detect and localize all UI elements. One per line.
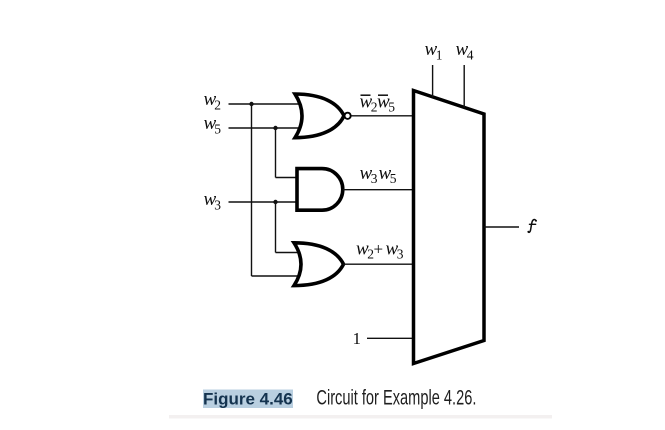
wire NOR output to mux input 00 [351,115,413,117]
wire f output [484,226,519,228]
label w5 [204,113,222,137]
junction dot on w2 [249,102,253,106]
OR gate U3 [294,243,344,286]
svg-text:Figure 4.46: Figure 4.46 [203,390,293,409]
svg-text:1: 1 [353,329,362,348]
svg-text:3: 3 [397,247,404,262]
svg-text:5: 5 [388,100,395,115]
label w2 + w3 [356,239,404,262]
wire w3 horizontal to AND input B [229,201,300,203]
label w2 [204,89,221,113]
label w3 w5 [360,163,397,186]
wire w3 branch vertical [275,202,277,253]
wire w2 horizontal to NOR input A [229,103,303,105]
svg-text:5: 5 [390,171,397,186]
label w3 [204,189,222,213]
svg-text:3: 3 [371,171,378,186]
svg-text:5: 5 [214,122,221,137]
page divider band [169,415,552,419]
label w1 [425,39,443,63]
wire constant 1 to mux input 11 [367,337,414,339]
NOR gate U1 [295,94,351,138]
svg-text:3: 3 [214,198,221,213]
svg-text:2: 2 [214,98,221,113]
wire OR output to mux input 10 [343,263,414,265]
label w4 [456,39,474,63]
wire select w1 [432,65,434,97]
AND gate U2 [297,169,343,211]
label NOT w2 NOT w5 [360,91,396,114]
label f [528,220,535,233]
svg-text:4: 4 [467,48,474,63]
wire AND output to mux input 01 [343,189,414,191]
wire w2 branch vertical rail [251,104,253,276]
wire w5 branch to AND input A [276,177,300,179]
wire w3 branch to OR input A [276,252,302,254]
wire w2 branch to OR input B [252,275,302,277]
junction dot on w5 [273,126,277,130]
wire w5 horizontal to NOR input B [229,127,303,129]
svg-text:+: + [374,240,384,259]
wire select w4 [463,65,465,108]
wire w5 branch vertical [275,128,277,178]
svg-text:1: 1 [436,48,443,63]
junction dot on w3 [273,200,277,204]
caption highlight [203,390,293,409]
svg-text:Circuit for Example 4.26.: Circuit for Example 4.26. [316,386,476,409]
multiplexer trapezoid [414,91,485,364]
